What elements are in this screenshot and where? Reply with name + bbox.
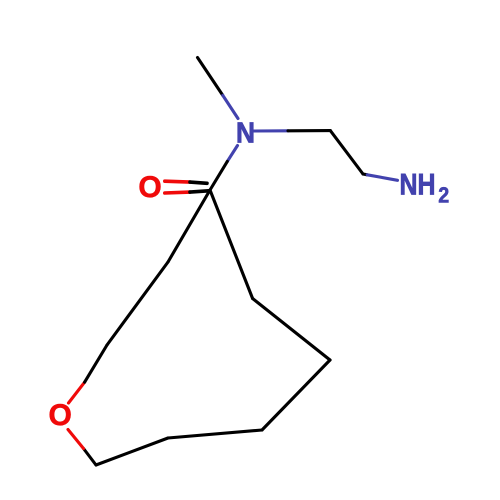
svg-text:NH: NH <box>400 169 436 202</box>
wire: N1 to CH2 (X) bond (black half) <box>288 129 330 132</box>
wire: ring O to V2 bond (black half) <box>85 345 107 382</box>
wire: N1 down to carbonyl C1 (black half) <box>210 161 227 190</box>
capacitor-like double bond C1=O upper bar (red half) <box>165 179 190 184</box>
svg-text:O: O <box>49 399 72 432</box>
wire: ring O to V2 bond (red half) <box>69 382 85 403</box>
wire: V5 to V6 ring bond <box>262 360 330 430</box>
wire: W to NH2 bond (black sliver) <box>363 172 367 176</box>
svg-text:N: N <box>236 117 255 149</box>
wire: V6 to V4 ring bond <box>168 430 262 438</box>
wire: V3 to ring O bond (red half) <box>68 430 84 449</box>
wire: V4 to V3 ring bond <box>96 438 168 465</box>
wire: W to NH2 bond (blue half) <box>367 175 397 181</box>
wire: V2 to V1 ring bond <box>107 262 168 345</box>
wire: CH2 (X) down to W vertex <box>330 131 363 174</box>
double bond C1=O upper bar (black half) <box>190 182 207 183</box>
wire: methyl C to N1 bond (black half) <box>198 58 223 96</box>
wire: methyl C to N1 bond (blue half) <box>223 95 238 118</box>
double bond C1=O lower bar (black half) <box>190 191 209 192</box>
double bond C1=O lower bar (red half) <box>165 190 190 194</box>
wire: C1 to C_a ring bond <box>210 190 253 299</box>
wire: C_a to V5 ring bond <box>253 299 330 361</box>
wire: carbonyl C1 to V1 (collinear continuation) <box>168 190 210 262</box>
wire: N1 to CH2 (X) bond (blue half) <box>253 129 288 132</box>
wire: V3 to ring O bond (black half) <box>84 449 97 466</box>
svg-text:O: O <box>138 171 161 204</box>
svg-text:2: 2 <box>438 183 449 208</box>
wire: N1 down to carbonyl C1 (blue half) <box>227 146 237 162</box>
